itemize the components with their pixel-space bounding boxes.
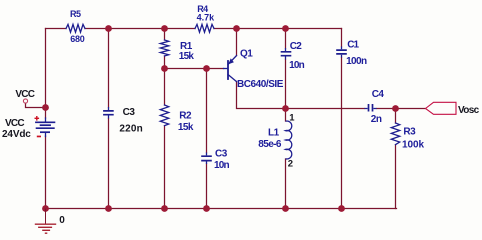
svg-text:C4: C4	[372, 89, 385, 100]
svg-text:Vosc: Vosc	[458, 105, 480, 116]
svg-text:BC640/SIE: BC640/SIE	[237, 79, 284, 90]
svg-text:C3: C3	[215, 149, 228, 160]
svg-text:10n: 10n	[214, 160, 230, 171]
svg-text:C2: C2	[290, 41, 303, 52]
svg-text:L1: L1	[268, 128, 280, 139]
svg-text:2: 2	[288, 158, 293, 169]
svg-text:15k: 15k	[179, 51, 195, 62]
svg-text:VCC: VCC	[15, 89, 34, 100]
svg-text:2n: 2n	[371, 114, 382, 125]
svg-text:4.7k: 4.7k	[197, 13, 216, 23]
svg-text:15k: 15k	[178, 122, 194, 133]
svg-text:R2: R2	[179, 110, 192, 121]
svg-text:R5: R5	[70, 9, 81, 19]
svg-text:C3: C3	[123, 107, 136, 118]
svg-text:VCC: VCC	[5, 118, 24, 129]
svg-text:24Vdc: 24Vdc	[2, 129, 31, 140]
svg-text:85e-6: 85e-6	[258, 139, 282, 150]
svg-text:0: 0	[59, 215, 65, 226]
svg-text:Q1: Q1	[240, 48, 253, 59]
svg-text:10n: 10n	[289, 60, 305, 71]
svg-text:100n: 100n	[346, 56, 367, 67]
svg-text:1: 1	[289, 112, 295, 123]
svg-text:220n: 220n	[119, 123, 143, 134]
svg-text:100k: 100k	[402, 140, 425, 151]
svg-text:R3: R3	[403, 126, 416, 137]
svg-text:C1: C1	[347, 40, 359, 51]
svg-text:680: 680	[70, 34, 85, 44]
